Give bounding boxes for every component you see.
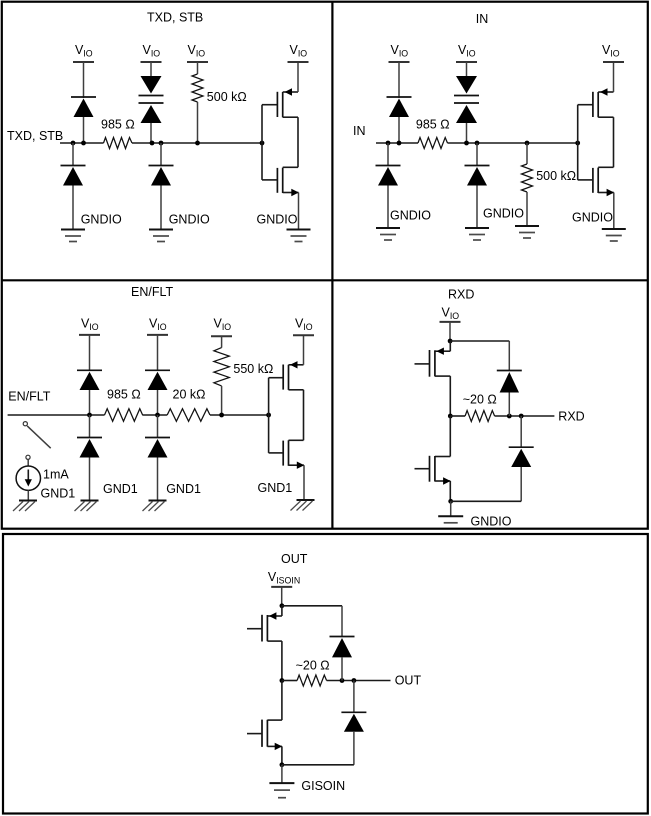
wire resistor to OUT output (327, 680, 391, 682)
svg-text:500 kΩ: 500 kΩ (207, 90, 247, 104)
diode clamp up to VIO (column 1) (71, 97, 96, 143)
transistor NMOS M8 (415, 416, 451, 501)
transistor PMOS M9 (247, 606, 282, 681)
diode clamp from GNDIO (column 1) (376, 143, 401, 228)
diode clamp up to VIO (column 1) (387, 97, 412, 143)
node ground rail junction (280, 762, 285, 767)
title OUT (281, 552, 308, 566)
svg-text:TXD, STB: TXD, STB (7, 129, 63, 143)
svg-text:500 kΩ: 500 kΩ (536, 169, 576, 183)
transistor PMOS M7 (415, 341, 451, 416)
svg-text:VIO: VIO (188, 43, 206, 59)
wire VIO to diode (column 2) (157, 335, 159, 371)
node junction dots column 1 (386, 141, 402, 146)
node resistor left junction (448, 414, 453, 419)
node junction dots column 2 (150, 141, 164, 146)
wire line to resistor (450, 415, 465, 417)
svg-text:IN: IN (476, 12, 489, 26)
svg-text:VIO: VIO (143, 43, 161, 59)
title EN/FLT (131, 285, 173, 299)
ground GNDIO (inverter) (572, 211, 626, 242)
svg-text:VIO: VIO (295, 317, 313, 333)
diode clamp up to VIO (column 1) (77, 370, 102, 415)
diode clamp to VIO (497, 341, 522, 416)
supply VIO (column 2) (141, 43, 162, 62)
svg-text:GNDIO: GNDIO (390, 209, 431, 223)
svg-text:GNDIO: GNDIO (483, 207, 524, 221)
svg-text:VIO: VIO (149, 317, 167, 333)
svg-text:550 kΩ: 550 kΩ (233, 362, 273, 376)
svg-text:GNDIO: GNDIO (81, 213, 122, 227)
node gate junction (266, 413, 271, 418)
wire drain connection (613, 117, 615, 167)
wire VIO to diode (column 1) (89, 335, 91, 371)
svg-text:EN/FLT: EN/FLT (131, 285, 173, 299)
wire ground rail (282, 764, 354, 766)
svg-text:VIO: VIO (81, 317, 99, 333)
svg-text:985 Ω: 985 Ω (107, 388, 141, 402)
switch (open) on EN/FLT input (23, 422, 51, 449)
svg-text:VIO: VIO (458, 43, 476, 59)
resistor 985 ohm (101, 117, 135, 148)
ground GNDIO (inverter) (257, 212, 311, 241)
diode clamp from GNDIO (column 2) (149, 143, 174, 230)
frame of bottom OUT panel (3, 534, 648, 814)
svg-text:OUT: OUT (395, 674, 422, 688)
ground GNDIO (column 2) (149, 213, 210, 242)
diode clamp from GNDIO (column 2) (465, 143, 490, 228)
svg-text:VIO: VIO (442, 306, 460, 322)
diode clamp to VISOIN (330, 606, 355, 681)
svg-text:OUT: OUT (281, 552, 308, 566)
diode clamp up to VIO (column 2) (145, 370, 170, 415)
resistor 500 kohm pull-up (192, 62, 247, 143)
wire node between resistors (142, 414, 167, 416)
title TXD, STB (147, 11, 203, 25)
svg-text:RXD: RXD (448, 287, 474, 301)
supply VIO (inverter) (288, 43, 309, 92)
ground GNDIO (column 2) (465, 207, 524, 241)
svg-text:GNDIO: GNDIO (257, 212, 298, 226)
wire VIO to diode (column 1) (398, 62, 400, 98)
supply VIO (440, 306, 461, 342)
svg-text:985 Ω: 985 Ω (416, 118, 450, 132)
supply VIO (550k pull-up) (211, 317, 232, 337)
resistor 985 ohm (105, 388, 143, 422)
ground GNDIO (column 1) (61, 213, 122, 242)
svg-text:IN: IN (353, 124, 366, 138)
node gate junction (575, 141, 580, 146)
ground GNDIO (438, 501, 512, 528)
wire drain connection (303, 390, 305, 441)
diode clamp from GISOIN rail (341, 681, 366, 765)
svg-text:VIO: VIO (391, 43, 409, 59)
resistor 500 kohm pull-down (522, 141, 577, 226)
node IN input label (353, 124, 366, 138)
transistor NMOS M10 (247, 681, 282, 765)
wire drain connection (297, 117, 299, 167)
wire node to gate (210, 414, 269, 416)
supply VIO (pull-up) (187, 43, 208, 62)
wire main node between R and gate (132, 142, 262, 144)
svg-text:~20 Ω: ~20 Ω (463, 392, 497, 406)
ground GND1 (column 2) (143, 482, 201, 511)
node OUT output label (395, 674, 422, 688)
title IN (476, 12, 489, 26)
node ground rail junction (448, 499, 453, 504)
node pull-up junction (219, 413, 224, 418)
svg-text:~20 Ω: ~20 Ω (296, 658, 330, 672)
resistor 985 ohm (416, 118, 450, 149)
ground GND1 (inverter) (258, 481, 315, 511)
svg-text:GISOIN: GISOIN (301, 779, 345, 793)
wire resistor to RXD output (495, 415, 555, 417)
node RXD output label (558, 409, 584, 423)
svg-text:VIO: VIO (290, 43, 308, 59)
wire gate vertical (268, 378, 270, 453)
ground GISOIN (269, 765, 345, 798)
svg-text:20 kΩ: 20 kΩ (173, 388, 206, 402)
svg-text:GNDIO: GNDIO (169, 213, 210, 227)
node VISOIN junction (280, 603, 285, 608)
svg-text:GND1: GND1 (41, 487, 76, 501)
supply VIO (inverter) (602, 43, 624, 92)
frame of top two panel rows (2, 2, 648, 529)
wire VIO to double diode (column 2) (150, 62, 152, 76)
node junction dots output (340, 678, 357, 683)
node junction dots output (507, 414, 524, 419)
supply VIO (column 1) (73, 43, 94, 62)
wire current source to ground (27, 490, 29, 500)
svg-text:1mA: 1mA (43, 468, 69, 482)
node VIO junction (448, 339, 453, 344)
horizontal divider between row 1 and row 2 (2, 279, 648, 281)
svg-text:VIO: VIO (214, 317, 232, 333)
svg-text:EN/FLT: EN/FLT (8, 390, 50, 404)
transistor PMOS M3 (578, 88, 614, 117)
ground GNDIO (column 1) (376, 209, 431, 241)
ground GND1 (current source) (13, 487, 75, 512)
supply VIO (column 2) (147, 317, 168, 335)
svg-text:VIO: VIO (75, 43, 93, 59)
svg-text:VIO: VIO (602, 43, 620, 59)
diode clamp from GND1 (column 2) (145, 415, 170, 501)
resistor 20 kohm (167, 388, 210, 422)
svg-text:VISOIN: VISOIN (268, 570, 300, 586)
svg-text:GND1: GND1 (103, 482, 138, 496)
wire input lead (8, 414, 105, 416)
transistor NMOS M2 (262, 167, 299, 229)
supply VIO (inverter) (293, 317, 314, 365)
diode clamp from GNDIO rail (509, 416, 534, 501)
diode clamp from GND1 (column 1) (77, 415, 102, 501)
op pair: PMOS M1 (262, 88, 298, 117)
diode clamp from GNDIO (column 1) (61, 143, 86, 230)
supply VISOIN (268, 570, 300, 606)
supply VIO (column 2) (456, 43, 477, 62)
wire input lead (60, 142, 104, 144)
transistor NMOS M4 (578, 167, 614, 229)
svg-text:RXD: RXD (558, 409, 584, 423)
diode pair back-to-back (column 2) (454, 76, 479, 143)
wire line to resistor (282, 680, 297, 682)
ground (pull-down, unlabeled) (515, 226, 539, 238)
svg-text:985 Ω: 985 Ω (101, 117, 135, 131)
wire VIO to double diode (column 2) (466, 62, 468, 76)
svg-text:GNDIO: GNDIO (572, 211, 613, 225)
vertical divider between left and right panels (331, 2, 333, 529)
wire input lead (376, 142, 418, 144)
resistor 550 kohm pull-up (214, 336, 273, 415)
node junction column 2 (155, 413, 160, 418)
wire gate vertical (261, 105, 263, 180)
node TXD, STB input label (7, 129, 63, 143)
resistor ~20 ohm (296, 658, 330, 686)
wire gate vertical (577, 105, 579, 180)
node resistor left junction (280, 678, 285, 683)
wire main node between R and gate (448, 142, 578, 144)
wire VIO rail to clamp diode (450, 340, 509, 342)
supply VIO (column 1) (389, 43, 410, 62)
node junction dots column 2 (464, 141, 479, 146)
supply VIO (column 1) (79, 317, 100, 335)
wire ground rail (451, 500, 522, 502)
resistor ~20 ohm (463, 392, 497, 421)
wire VISOIN rail to clamp diode (282, 605, 342, 607)
node gate junction (260, 141, 265, 146)
transistor NMOS M6 (269, 440, 305, 500)
diode pair back-to-back (column 2) (139, 76, 164, 143)
node pull-up junction (195, 141, 200, 146)
wire VIO to diode (column 1) (83, 62, 85, 98)
node junction dots column 1 (71, 141, 86, 146)
svg-text:GND1: GND1 (258, 481, 293, 495)
node junction column 1 (87, 413, 92, 418)
title RXD (448, 287, 474, 301)
transistor PMOS M5 (269, 361, 304, 390)
svg-text:GND1: GND1 (166, 482, 201, 496)
ground GND1 (column 1) (75, 482, 138, 511)
svg-text:TXD, STB: TXD, STB (147, 11, 203, 25)
current source 1mA (16, 455, 69, 490)
svg-text:GNDIO: GNDIO (471, 515, 512, 529)
node EN/FLT input label (8, 390, 50, 404)
